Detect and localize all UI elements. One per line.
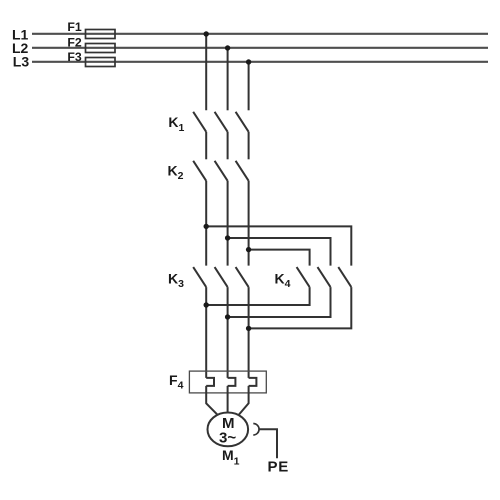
svg-text:F2: F2 — [67, 36, 82, 50]
motor M1 circle — [208, 413, 249, 447]
wire phase1 drop — [205, 34, 207, 110]
overload F4 element 3 — [249, 378, 257, 386]
svg-text:M1: M1 — [222, 447, 240, 467]
wire L1 bus — [32, 33, 488, 35]
node junction L2 drop — [225, 45, 230, 50]
contactor K4 pole 2 — [318, 267, 331, 287]
wire phase1 K1-K2 — [205, 132, 207, 160]
node junction L3 drop — [246, 59, 251, 64]
contactor K3 pole 2 — [215, 267, 228, 287]
wire phase3 K2-K3 — [248, 181, 250, 266]
node junction phase2 lower — [225, 314, 230, 319]
contactor K1 pole 1 — [193, 112, 206, 132]
wire phase3 drop — [248, 62, 250, 110]
contactor K2 pole 2 — [215, 161, 228, 181]
wire crossover top phase1 to K4 pole3 — [206, 226, 351, 265]
contactor K1 pole 2 — [215, 112, 228, 132]
wire phase2 K2-K3 — [227, 181, 229, 266]
contactor K1 pole 3 — [236, 112, 249, 132]
contactor K4 pole 3 — [338, 267, 351, 287]
wire phase1 to motor — [206, 386, 217, 415]
PE terminal arc — [253, 424, 259, 436]
contactor K3 pole 1 — [193, 267, 206, 287]
wire phase2 drop — [227, 48, 229, 110]
wire phase1 K2-K3 — [205, 181, 207, 266]
overload F4 element 1 — [206, 378, 214, 386]
svg-text:3~: 3~ — [219, 429, 236, 446]
fuse F3 — [86, 58, 116, 67]
contactor K2 pole 1 — [193, 161, 206, 181]
contactor K3 pole 3 — [236, 267, 249, 287]
node junction phase1 upper — [204, 224, 209, 229]
wire crossover top phase3 to K4 pole1 — [249, 250, 310, 266]
node junction phase2 upper — [225, 235, 230, 240]
svg-text:F1: F1 — [67, 20, 82, 34]
wire K4 pole1 bottom to phase1 — [206, 287, 309, 305]
svg-text:F4: F4 — [169, 372, 184, 392]
wire crossover top phase2 to K4 pole2 — [228, 238, 331, 266]
svg-text:L3: L3 — [13, 54, 30, 70]
node junction L1 drop — [204, 31, 209, 36]
wire K4 pole3 bottom to phase3 — [249, 287, 352, 328]
wire K4 pole2 bottom to phase2 — [228, 287, 331, 317]
wire phase2 K3-F4 — [227, 287, 229, 378]
wire phase3 K3-F4 — [248, 287, 250, 378]
overload F4 box — [189, 371, 266, 393]
node junction phase3 upper — [246, 247, 251, 252]
wire phase2 K1-K2 — [227, 132, 229, 160]
svg-text:K3: K3 — [168, 270, 184, 290]
wire L3 bus — [32, 61, 488, 63]
svg-text:K4: K4 — [275, 270, 291, 290]
node junction phase1 lower — [204, 302, 209, 307]
contactor K2 pole 3 — [236, 161, 249, 181]
contactor K4 pole 1 — [297, 267, 310, 287]
wire phase3 to motor — [239, 386, 249, 415]
svg-text:F3: F3 — [67, 50, 82, 64]
svg-text:K2: K2 — [168, 163, 184, 183]
fuse F1 — [86, 30, 116, 39]
overload F4 element 2 — [228, 378, 236, 386]
fuse F2 — [86, 44, 116, 53]
svg-text:PE: PE — [268, 459, 290, 476]
wire phase1 K3-F4 — [205, 287, 207, 378]
wire phase3 K1-K2 — [248, 132, 250, 160]
node junction phase3 lower — [246, 326, 251, 331]
wire phase2 to motor — [227, 386, 229, 413]
wire L2 bus — [32, 47, 488, 49]
svg-text:K1: K1 — [168, 114, 184, 134]
wire PE — [259, 429, 277, 458]
